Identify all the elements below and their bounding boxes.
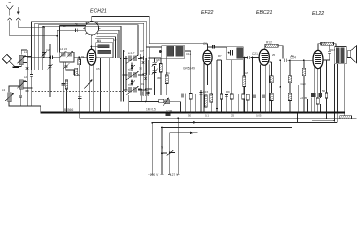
svg-text:~220 V: ~220 V [148, 173, 159, 177]
svg-text:EBC21: EBC21 [256, 10, 273, 16]
svg-text:C15: C15 [203, 90, 209, 94]
svg-text:L3: L3 [2, 88, 6, 92]
svg-text:R7: R7 [218, 54, 222, 58]
svg-text:C24: C24 [290, 56, 296, 60]
svg-text:EL22: EL22 [312, 11, 324, 17]
svg-text:C7: C7 [140, 49, 144, 53]
svg-text:a3: a3 [128, 83, 132, 87]
svg-text:~127 V: ~127 V [168, 173, 179, 177]
svg-text:C2: C2 [46, 48, 50, 52]
svg-text:0,05: 0,05 [256, 114, 262, 118]
svg-text:1M 0,5: 1M 0,5 [146, 107, 156, 111]
svg-text:R1: R1 [81, 55, 85, 59]
svg-text:50: 50 [188, 114, 192, 118]
svg-text:0,5M: 0,5M [166, 109, 173, 113]
svg-text:GR5249: GR5249 [183, 67, 195, 71]
svg-text:R4: R4 [166, 71, 170, 75]
svg-text:a 4-7: a 4-7 [128, 51, 135, 55]
svg-text:S2: S2 [113, 38, 117, 42]
svg-text:25: 25 [272, 53, 276, 57]
svg-text:R9: R9 [226, 90, 230, 94]
svg-text:R16: R16 [330, 48, 336, 52]
svg-text:1M: 1M [244, 71, 249, 75]
svg-text:30: 30 [139, 67, 143, 71]
svg-text:450: 450 [157, 76, 162, 80]
svg-text:C20: C20 [301, 82, 307, 86]
svg-text:+0,05: +0,05 [300, 96, 308, 100]
svg-text:a2: a2 [128, 68, 132, 72]
svg-text:C12: C12 [186, 52, 192, 56]
svg-text:EF22: EF22 [201, 10, 214, 16]
svg-text:1n: 1n [63, 24, 67, 28]
svg-text:0,1: 0,1 [205, 114, 209, 118]
svg-text:B0566: B0566 [64, 108, 73, 112]
svg-text:ECH21: ECH21 [90, 9, 107, 15]
svg-text:C9: C9 [203, 42, 207, 46]
svg-text:R15: R15 [320, 42, 326, 46]
svg-text:L1: L1 [24, 50, 28, 54]
svg-text:15: 15 [141, 82, 145, 86]
svg-text:50: 50 [322, 89, 326, 93]
svg-text:50: 50 [75, 22, 79, 26]
svg-text:25: 25 [231, 114, 235, 118]
svg-text:S1: S1 [97, 39, 101, 43]
svg-text:C8: C8 [156, 58, 160, 62]
svg-text:L4 L5: L4 L5 [60, 47, 67, 51]
svg-text:C5: C5 [96, 67, 100, 71]
svg-text:C21: C21 [252, 52, 258, 56]
svg-text:L2: L2 [24, 75, 28, 79]
svg-text:S: S [123, 49, 125, 53]
svg-text:S: S [161, 146, 163, 150]
svg-text:R12: R12 [266, 41, 272, 45]
